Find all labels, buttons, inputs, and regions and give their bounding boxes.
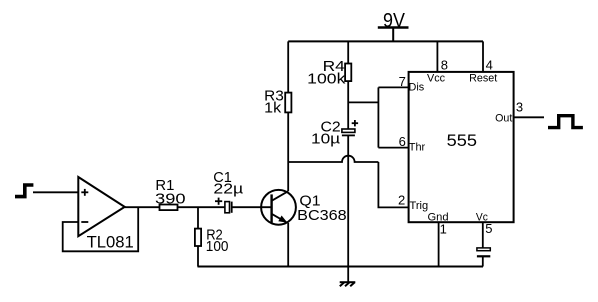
wire C3 to bottom rail <box>482 256 484 266</box>
bottom ground rail wire <box>198 266 484 268</box>
wire Dis-Thr vertical <box>377 87 379 147</box>
svg-text:22µ: 22µ <box>213 180 243 197</box>
svg-text:TL081: TL081 <box>87 234 134 252</box>
op-amp - input glyph <box>81 221 88 223</box>
svg-text:100: 100 <box>206 238 229 255</box>
wire Q1 collector up <box>287 112 289 191</box>
wire node collector to Trig with hop over C2 wire <box>288 156 378 162</box>
wire Thr stub pin 6 <box>378 147 408 149</box>
svg-text:6: 6 <box>399 134 406 149</box>
wire node R4/C2 to Dis/Thr <box>348 101 378 103</box>
input step waveform symbol <box>15 185 33 197</box>
wire rail to R4 <box>347 41 349 63</box>
svg-text:9V: 9V <box>383 10 405 32</box>
wire Trig vertical and stub to pin 2 <box>378 162 408 207</box>
output pulse waveform symbol <box>548 116 583 128</box>
wire pin 1 Gnd down <box>438 222 440 266</box>
ground symbol <box>340 267 356 287</box>
op-amp + input glyph <box>81 189 88 196</box>
svg-text:BC368: BC368 <box>297 207 347 224</box>
wire pin 8 Vcc to rail <box>436 41 438 72</box>
wire R1 to C1 <box>178 206 225 208</box>
svg-text:Trig: Trig <box>410 200 429 212</box>
resistor R2 <box>195 229 201 246</box>
capacitor C2 plus glyph <box>352 120 358 126</box>
svg-text:1: 1 <box>440 221 447 236</box>
resistor R1 <box>160 205 178 211</box>
svg-text:Vcc: Vcc <box>427 73 446 85</box>
svg-text:8: 8 <box>441 58 448 73</box>
svg-text:390: 390 <box>155 190 186 207</box>
transistor Q1 <box>261 190 296 225</box>
capacitor C2 <box>342 129 355 135</box>
svg-text:1k: 1k <box>264 99 282 116</box>
wire op-amp output <box>125 206 160 208</box>
wire pin 4 Reset to rail <box>482 41 484 72</box>
IC U2 555 box <box>409 72 514 222</box>
top rail 9V net <box>288 40 483 42</box>
wire input to op-amp + <box>33 191 78 193</box>
svg-text:Dis: Dis <box>409 81 425 93</box>
capacitor C1 <box>225 202 232 213</box>
9V supply symbol <box>378 28 409 42</box>
wire R2 bottom <box>197 246 199 267</box>
svg-text:4: 4 <box>486 57 493 72</box>
capacitor C1 plus glyph <box>215 198 222 205</box>
resistor R4 <box>345 64 351 82</box>
svg-text:Out: Out <box>495 112 512 124</box>
wire pin 5 Vc down <box>482 222 484 248</box>
svg-text:7: 7 <box>399 74 406 89</box>
wire Q1 emitter down <box>287 223 289 267</box>
svg-text:555: 555 <box>447 131 477 150</box>
op-amp U1 triangle <box>78 177 124 236</box>
wire R2 top <box>197 207 199 228</box>
svg-text:Reset: Reset <box>469 73 497 85</box>
svg-text:2: 2 <box>398 193 405 208</box>
wire pin 3 Out stub <box>514 116 544 118</box>
svg-text:5: 5 <box>485 221 492 236</box>
svg-text:10µ: 10µ <box>311 130 341 147</box>
wire feedback loop <box>63 207 139 251</box>
svg-text:100k: 100k <box>307 70 346 87</box>
wire R3 top to rail <box>287 41 289 92</box>
wire R4 to C2 <box>347 81 349 129</box>
wire Dis stub pin 7 <box>378 86 408 88</box>
svg-text:Thr: Thr <box>409 141 426 153</box>
wire C2 bottom to ground rail <box>347 135 349 266</box>
resistor R3 <box>285 93 291 113</box>
svg-text:3: 3 <box>516 100 523 115</box>
wire C1 to Q1 base <box>232 206 272 208</box>
capacitor C3 on Vc <box>477 248 490 256</box>
